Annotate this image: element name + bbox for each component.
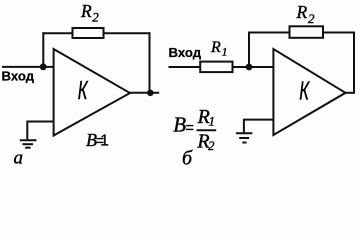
label K (right amp): [299, 76, 310, 106]
wire: feedback down to output: [149, 32, 151, 93]
svg-text:1: 1: [100, 132, 109, 149]
wire: top left of R2 right: [248, 32, 290, 34]
node: summing junction: [246, 64, 253, 71]
wire: ground stem: [26, 122, 28, 140]
svg-text:R: R: [296, 2, 308, 22]
wire: R1 to amp: [233, 66, 274, 68]
svg-text:Вход: Вход: [2, 69, 35, 84]
svg-text:К: К: [78, 75, 89, 105]
svg-text:R: R: [210, 39, 221, 56]
wire: input horizontal: [2, 66, 55, 68]
svg-text:=: =: [186, 121, 194, 137]
resistor R1: [200, 62, 232, 73]
wire: output stub: [130, 92, 160, 94]
wire: ground branch horizontal: [26, 121, 53, 123]
svg-text:2: 2: [92, 10, 99, 25]
op-amp U1 triangle: [54, 49, 130, 136]
wire: feedback riser: [42, 32, 44, 67]
svg-text:1: 1: [209, 113, 216, 128]
svg-text:а: а: [14, 147, 24, 168]
svg-text:1: 1: [222, 47, 228, 59]
ground (right): [236, 133, 253, 142]
svg-text:Вход: Вход: [169, 45, 202, 60]
resistor R2 (left): [73, 28, 104, 38]
svg-text:б: б: [182, 148, 193, 170]
svg-text:2: 2: [208, 138, 215, 153]
wire: top right of R2: [104, 32, 151, 34]
op-amp U2 triangle: [273, 49, 345, 135]
wire: ground branch horizontal right: [243, 119, 273, 121]
svg-text:2: 2: [308, 11, 315, 26]
svg-text:В: В: [173, 113, 186, 137]
resistor R2 (right): [290, 26, 324, 38]
wire: top right of R2 right: [323, 32, 355, 34]
wire: feedback down right: [353, 32, 355, 94]
svg-text:К: К: [299, 76, 310, 106]
wire: feedback riser right: [248, 32, 250, 67]
label K (left amp): [78, 75, 89, 105]
node: input junction: [40, 63, 47, 70]
wire: ground stem right: [243, 120, 245, 133]
svg-text:R: R: [80, 1, 92, 21]
ground (left): [20, 140, 37, 148]
wire: top left of R2: [42, 32, 73, 34]
wire: output connector: [345, 92, 355, 94]
wire: input horizontal right: [169, 66, 201, 68]
node: output junction: [147, 90, 154, 97]
